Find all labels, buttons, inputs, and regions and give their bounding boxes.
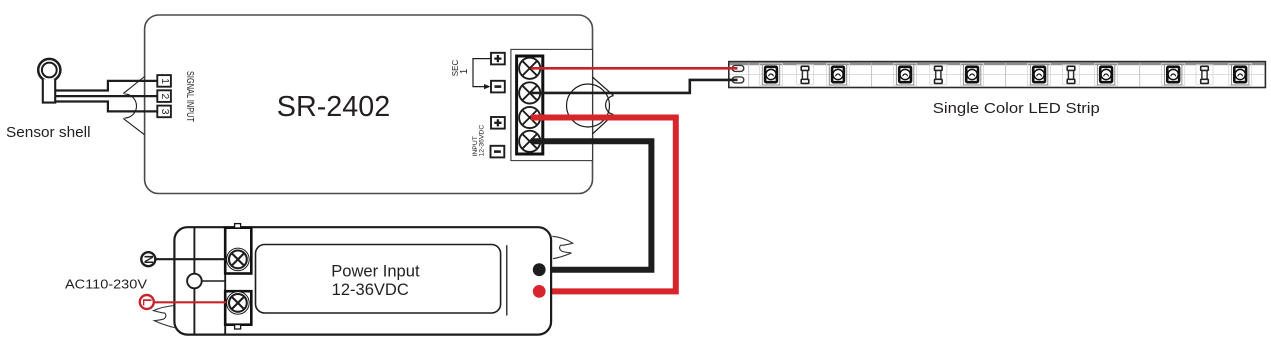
terminal box pin 3 [157,106,171,118]
controller U1 SR-2402 enclosure [145,15,593,194]
LED D4 [963,64,980,85]
screw terminal 2 [519,82,540,103]
PSU divider line [506,245,508,315]
wire sensor pin3 [55,102,157,112]
LED strip body [729,62,1266,88]
wire INPUT- thick black to PSU [531,141,651,269]
wire sensor pin1 [55,81,157,91]
screw terminal 3 [519,107,540,128]
PSU end-cap divider lines [194,227,225,334]
svg-text:Power Input: Power Input [331,262,420,281]
output node DC+ (red dot) [533,285,546,298]
svg-text:SR-2402: SR-2402 [277,91,390,123]
neutral symbol N [141,252,155,266]
resistor R2 [935,66,943,83]
polarity mark SEC - [491,81,505,93]
svg-text:3: 3 [159,109,170,115]
cable entry funnel (signal input) [123,77,144,135]
AC terminal housing top [225,228,251,274]
wire L to screw [154,301,238,303]
wire N to screw [155,258,238,260]
LED D3 [896,64,913,85]
terminal box pin 1 [157,75,171,87]
terminal box pin 2 [157,90,171,102]
svg-text:Sensor shell: Sensor shell [6,125,91,141]
resistor R4 [1201,66,1209,83]
svg-text:AC110-230V: AC110-230V [65,276,147,291]
LED D2 [829,64,846,85]
LED D7 [1165,64,1182,85]
wire SEC- black to LED strip [531,80,737,93]
svg-text:SIGNAL INPUT: SIGNAL INPUT [184,71,195,122]
strain relief squiggle bottom-left [153,306,174,328]
AC screw N [227,248,250,271]
svg-text:Single Color LED Strip: Single Color LED Strip [933,100,1100,117]
PSU label plate [256,245,501,314]
svg-text:1: 1 [159,78,170,84]
strip centre line [730,74,1265,76]
svg-text:L: L [140,299,154,306]
strain relief squiggle top-right [552,236,573,258]
wire hole to block [202,280,226,282]
resistor R3 [1067,66,1075,83]
sensor stem [43,79,55,102]
wire stub SEC- into pad [728,79,738,82]
svg-text:N: N [142,255,156,264]
cable exit funnel (output wires) [567,77,614,134]
strip segment cut marks [749,63,1140,87]
solder pad + [732,65,744,71]
polarity mark INPUT + [491,117,505,129]
screw terminal 4 [519,131,540,152]
svg-text:12-36VDC: 12-36VDC [332,280,409,299]
LED D8 [1232,64,1249,85]
power supply enclosure [174,227,551,334]
LED D1 [762,64,779,85]
svg-text:12-36VDC: 12-36VDC [478,125,485,157]
live symbol L [140,295,154,309]
wire stub SEC+ into pad [728,67,738,70]
screw terminal 1 [519,58,540,79]
wire sensor pin2 [55,95,158,97]
terminal recess [511,49,593,160]
LED D5 [1030,64,1047,85]
wire SEC+ red to LED strip [531,67,737,70]
svg-text:2: 2 [159,93,170,99]
svg-text:1: 1 [459,68,470,74]
terminal block [517,56,543,154]
wire INPUT+ thick red to PSU [531,118,676,292]
LED D6 [1097,64,1114,85]
AC screw L [227,292,250,315]
solder pad - [732,77,744,83]
sensor shell (ring) [38,59,60,81]
AC terminal housing bottom [225,291,251,325]
component courtyards (faint) [760,63,1252,85]
polarity mark SEC + [491,53,505,65]
polarity mark INPUT - [491,146,505,158]
PSU mounting hole [187,274,202,289]
resistor R1 [801,66,809,83]
SEC bracket with arrow [473,59,491,87]
output node DC- (black dot) [533,263,546,276]
strip top band [730,62,1265,65]
